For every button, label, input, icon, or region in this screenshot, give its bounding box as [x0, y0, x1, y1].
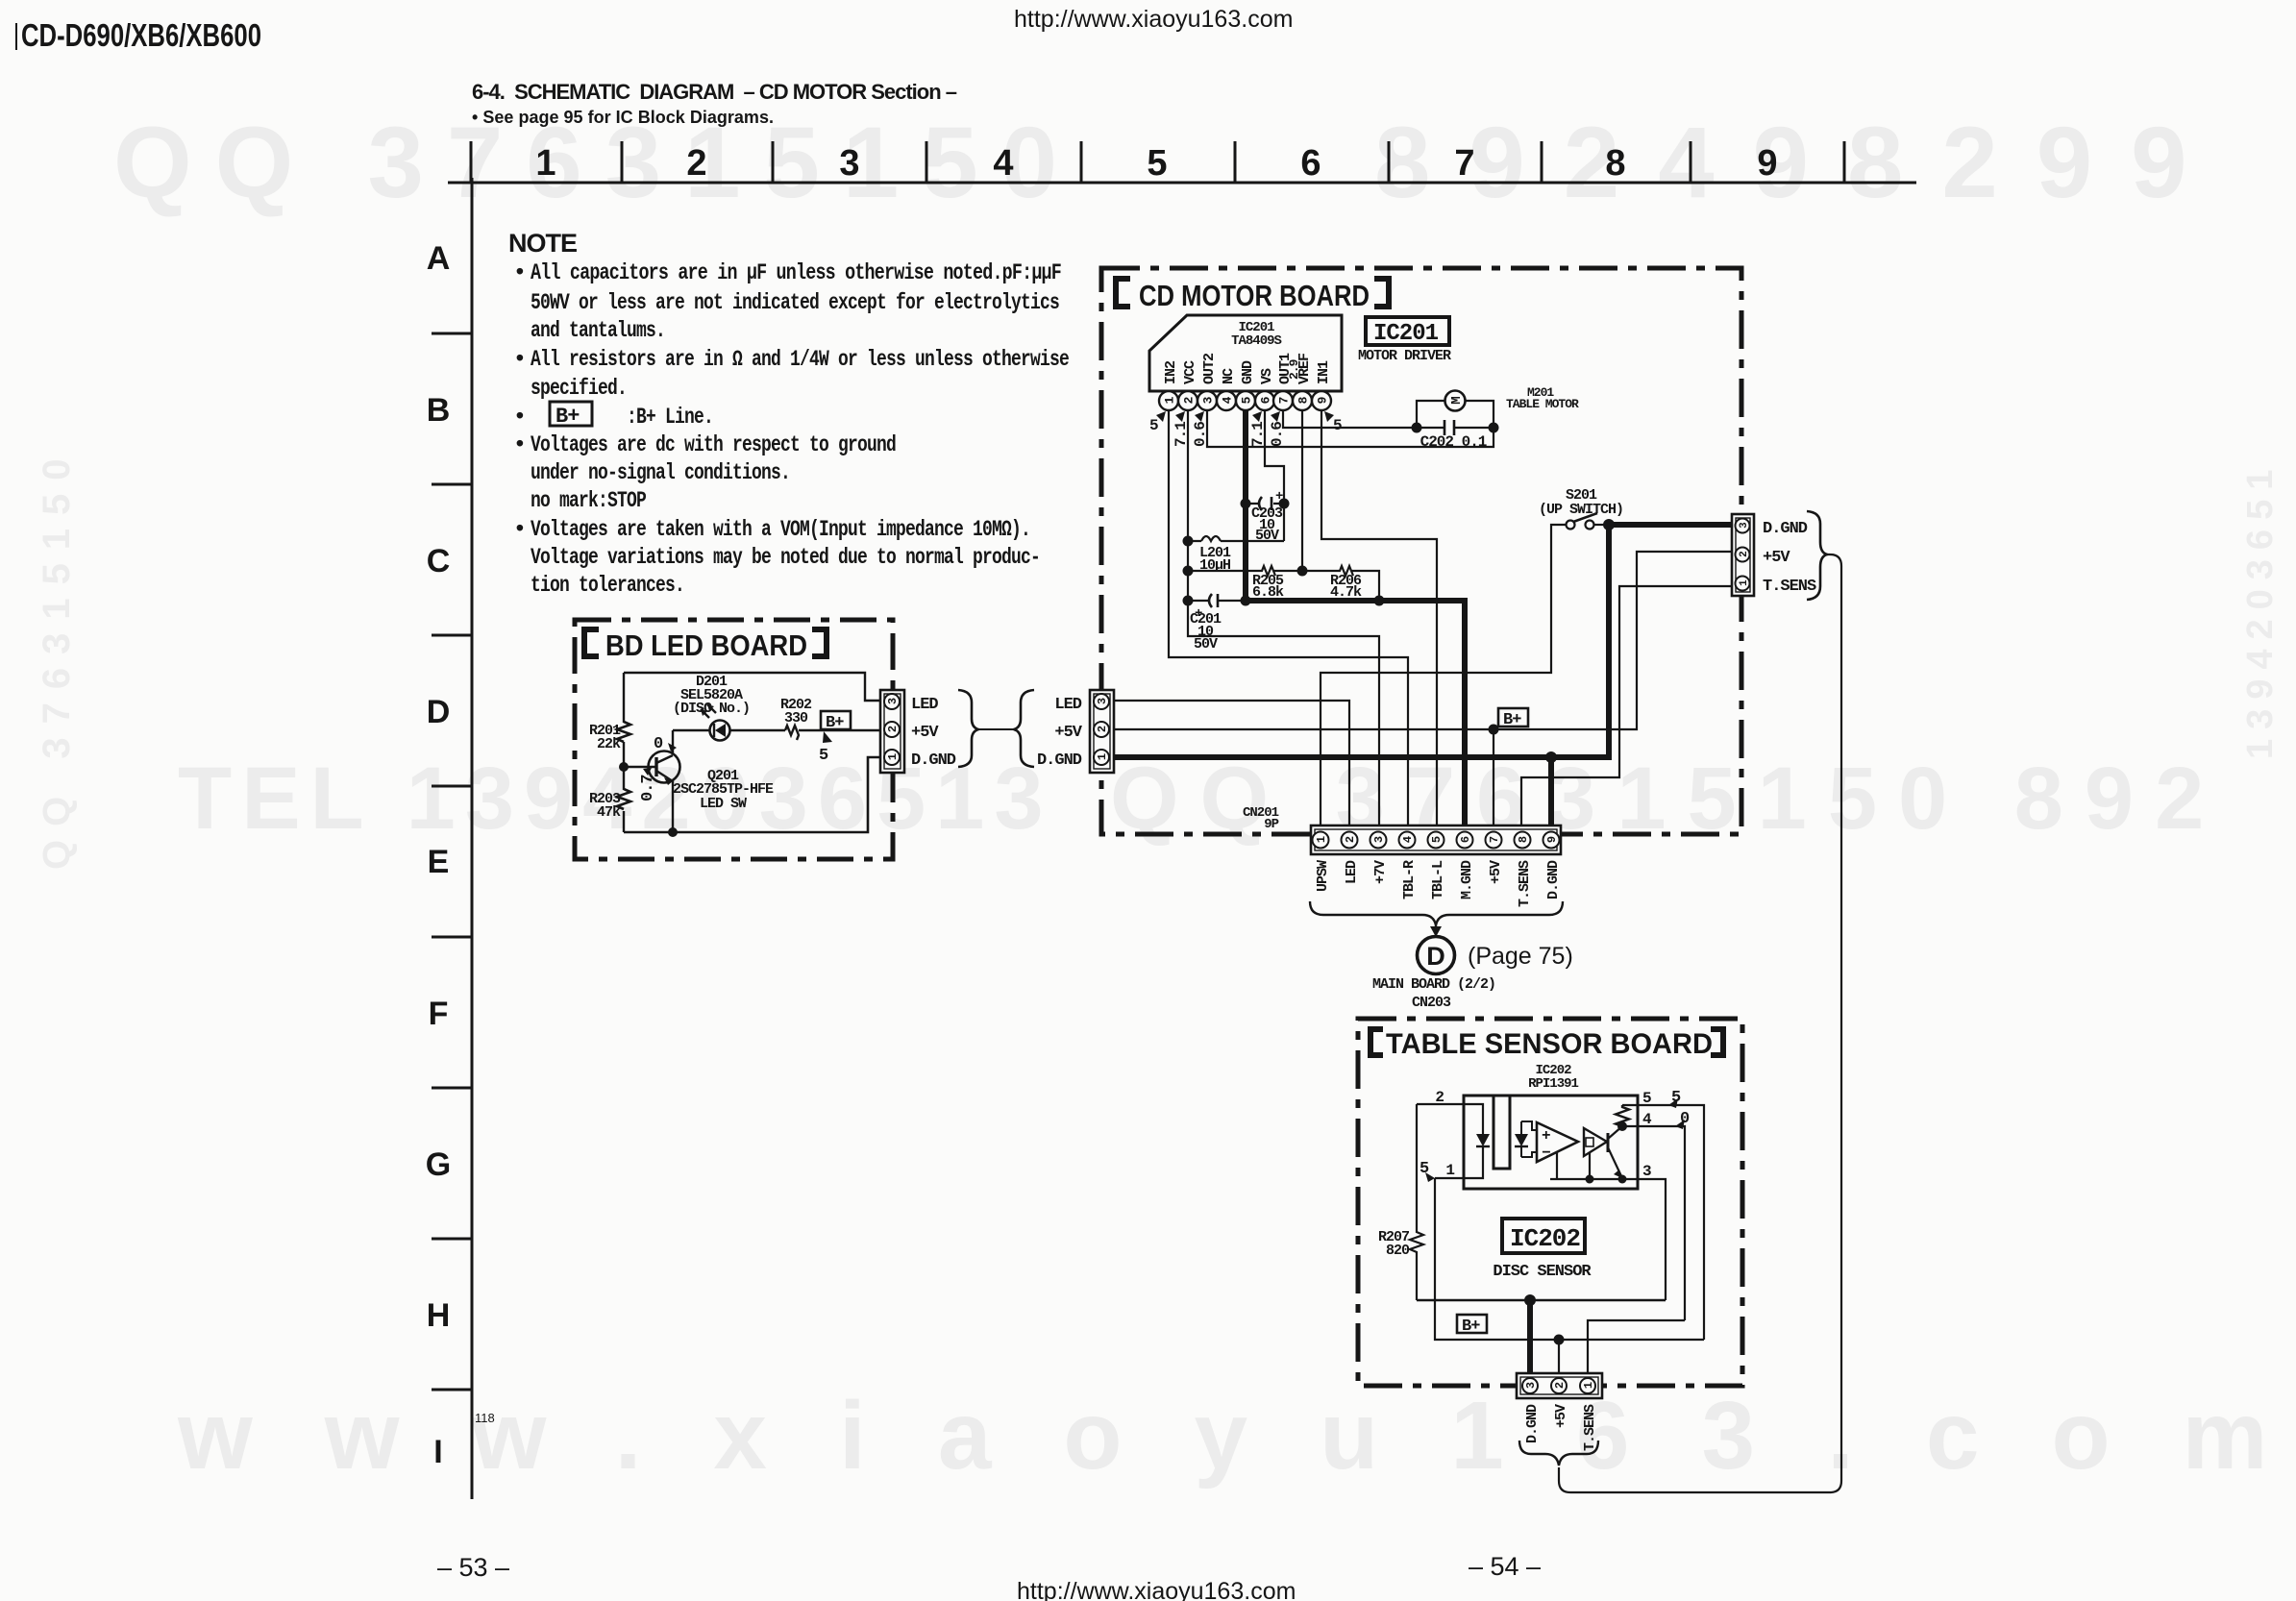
svg-text:VCC: VCC [1182, 360, 1198, 384]
inductor L201 [1188, 540, 1284, 542]
svg-text:under no-signal conditions.: under no-signal conditions. [531, 460, 790, 485]
wire base [624, 766, 656, 768]
svg-text:(DISC No.): (DISC No.) [673, 701, 750, 717]
svg-text:MAIN BOARD (2/2): MAIN BOARD (2/2) [1372, 976, 1495, 993]
brace under CN201 [1310, 901, 1563, 925]
svg-text:DISC SENSOR: DISC SENSOR [1493, 1263, 1592, 1281]
svg-text:2: 2 [1435, 1089, 1444, 1106]
svg-text:B: B [427, 392, 451, 429]
connector CN201 [1311, 825, 1561, 854]
svg-text:+5V: +5V [1763, 549, 1790, 567]
svg-text:D.GND: D.GND [1524, 1404, 1541, 1443]
wire OUT1 pin7 to motor left [1283, 410, 1417, 428]
svg-text:8: 8 [1296, 396, 1311, 404]
wire +5V row [1435, 1178, 1704, 1340]
wire bottom rail [624, 757, 881, 832]
svg-text:(UP SWITCH): (UP SWITCH) [1539, 502, 1623, 518]
svg-text:IC202: IC202 [1510, 1224, 1580, 1253]
svg-text:•: • [513, 432, 526, 457]
svg-text:http://www.xiaoyu163.com: http://www.xiaoyu163.com [1014, 6, 1293, 33]
svg-text:M.GND: M.GND [1459, 860, 1475, 899]
svg-text:I: I [433, 1434, 442, 1470]
svg-text:Voltage variations may be note: Voltage variations may be noted due to n… [531, 545, 1040, 570]
svg-text:VS: VS [1259, 368, 1275, 384]
diode IR LED inside [1464, 1104, 1483, 1178]
svg-text:4.7k: 4.7k [1330, 584, 1362, 601]
resistor pullup [1616, 1105, 1629, 1126]
svg-text:http://www.xiaoyu163.com: http://www.xiaoyu163.com [1017, 1578, 1296, 1601]
svg-text:1: 1 [1096, 753, 1109, 760]
wire LED run [1113, 701, 1349, 826]
wire UPSW CN201-1 to switch [1321, 525, 1567, 826]
cable brace right [1807, 511, 1827, 600]
svg-text:TBL-L: TBL-L [1430, 860, 1446, 899]
resistor R205 [1188, 566, 1302, 576]
LED D201 [710, 721, 730, 741]
svg-text:6.8k: 6.8k [1252, 584, 1284, 601]
svg-text:8: 8 [1605, 143, 1625, 184]
svg-text:C: C [427, 543, 451, 579]
svg-text:and tantalums.: and tantalums. [531, 318, 665, 343]
resistor R201 [617, 722, 630, 742]
svg-text:1: 1 [1315, 836, 1328, 843]
svg-text:5: 5 [1149, 417, 1158, 434]
svg-text:– 53 –: – 53 – [437, 1553, 509, 1582]
wire IN2 pin1 to CN201-4 [1169, 410, 1408, 826]
svg-text:50V: 50V [1194, 636, 1218, 653]
svg-text:50WV or less are not indicated: 50WV or less are not indicated except fo… [531, 290, 1059, 315]
svg-text:MOTOR DRIVER: MOTOR DRIVER [1358, 348, 1451, 364]
svg-text:1394203651: 1394203651 [2240, 460, 2281, 759]
op IC201 body [1149, 315, 1342, 391]
resistor R206 [1302, 566, 1379, 601]
svg-text:M: M [1449, 397, 1465, 405]
svg-text:LED SW: LED SW [700, 796, 747, 812]
svg-text:+5V: +5V [1488, 860, 1504, 884]
pin 1 wire [1435, 1177, 1464, 1179]
svg-text:T.SENS: T.SENS [1517, 860, 1533, 907]
svg-text:• See page 95 for IC Block Dia: • See page 95 for IC Block Diagrams. [472, 108, 774, 127]
svg-text:9: 9 [1757, 143, 1777, 184]
svg-text:B+: B+ [1462, 1318, 1480, 1336]
svg-text:D: D [1426, 942, 1445, 971]
svg-text:+5V: +5V [1553, 1404, 1569, 1428]
svg-text:GND: GND [1240, 360, 1256, 384]
svg-text:A: A [427, 240, 451, 277]
svg-text:5: 5 [1147, 143, 1167, 184]
svg-text:•: • [513, 347, 526, 372]
op-amp triangle [1537, 1122, 1578, 1162]
svg-text:5: 5 [1240, 396, 1254, 404]
svg-text:G: G [426, 1146, 451, 1183]
svg-text:2: 2 [1553, 1382, 1567, 1389]
capacitor C201 [1188, 600, 1246, 602]
svg-text:BD LED BOARD: BD LED BOARD [605, 628, 807, 662]
board outline TABLE SENSOR BOARD [1358, 1019, 1742, 1386]
svg-text:2: 2 [1182, 396, 1197, 404]
connector board-in (left) [1090, 690, 1114, 773]
svg-text:1: 1 [886, 753, 900, 760]
svg-text:specified.: specified. [531, 376, 627, 401]
svg-text:LED: LED [1344, 860, 1360, 884]
svg-text:D.GND: D.GND [1037, 751, 1082, 770]
wire left vertical [623, 673, 625, 832]
wire +5V run [1113, 552, 1734, 729]
svg-text:6-4. SCHEMATIC DIAGRAM – CD: 6-4. SCHEMATIC DIAGRAM – CD MOTOR Sectio… [472, 80, 957, 104]
op IC202 photo-interrupter body [1464, 1096, 1638, 1189]
connector board-out (right) [1732, 514, 1754, 596]
svg-text:9: 9 [1316, 396, 1330, 404]
svg-text:47k: 47k [597, 804, 621, 821]
svg-text:3: 3 [839, 143, 859, 184]
svg-text:9P: 9P [1264, 817, 1278, 832]
svg-text:2: 2 [886, 726, 900, 732]
svg-text:+: + [1542, 1127, 1550, 1145]
transistor Q201 [649, 751, 680, 783]
svg-text:H: H [427, 1297, 451, 1334]
connector table sensor [1517, 1373, 1602, 1398]
svg-text:9: 9 [1545, 836, 1559, 843]
wire LED row [673, 729, 881, 731]
cable brace } { [958, 690, 978, 767]
svg-text:LED: LED [1054, 696, 1081, 714]
svg-text:0: 0 [654, 735, 663, 753]
svg-text:5: 5 [1430, 836, 1444, 843]
svg-text:TA8409S: TA8409S [1231, 333, 1281, 349]
svg-text:NC: NC [1221, 368, 1237, 384]
wire T.SENS [1588, 1320, 1685, 1378]
svg-text:2.9: 2.9 [1287, 358, 1301, 380]
CN201 pin labels [1315, 860, 1562, 907]
svg-text:7: 7 [1277, 397, 1292, 404]
svg-text:E: E [428, 844, 450, 880]
svg-text:+5V: +5V [1054, 724, 1082, 742]
svg-text:LED: LED [911, 696, 938, 714]
svg-text:B+: B+ [555, 405, 580, 429]
svg-text:7: 7 [1488, 836, 1501, 843]
svg-text:5: 5 [1333, 417, 1342, 434]
svg-text:+7V: +7V [1372, 860, 1389, 884]
svg-text:•: • [513, 260, 526, 285]
svg-text:6: 6 [1259, 396, 1273, 404]
wire D.GND thick run [1113, 525, 1734, 757]
wire GND row [1417, 1299, 1666, 1301]
svg-text:2: 2 [1739, 552, 1750, 557]
svg-text:B+: B+ [826, 714, 844, 732]
svg-text:TABLE SENSOR BOARD: TABLE SENSOR BOARD [1386, 1028, 1713, 1060]
boxed designator IC202 [1502, 1219, 1585, 1253]
svg-text:3: 3 [1201, 396, 1216, 404]
svg-text:T.SENS: T.SENS [1582, 1404, 1598, 1451]
svg-text:– 54 –: – 54 – [1469, 1552, 1541, 1581]
B+ box in note [550, 402, 592, 429]
svg-text:4: 4 [1221, 396, 1235, 404]
label B+ [1457, 1315, 1487, 1333]
brace under connector [1519, 1441, 1598, 1466]
transistor output [1607, 1133, 1610, 1152]
svg-text:Voltages are dc with respect t: Voltages are dc with respect to ground [531, 432, 896, 457]
svg-text:22k: 22k [597, 736, 621, 752]
resistor R202 [785, 726, 799, 740]
photodiode inside [1521, 1121, 1537, 1157]
svg-text:QQ 376315150: QQ 376315150 [36, 445, 78, 870]
internal rail [1550, 1152, 1622, 1179]
svg-text:6: 6 [1459, 836, 1472, 843]
board title CD MOTOR BOARD [1113, 276, 1392, 309]
pin 3 wire out [1622, 1179, 1666, 1300]
node D to main board [1418, 937, 1455, 974]
svg-text:D.GND: D.GND [911, 751, 956, 770]
svg-text:Voltages are taken with a VOM(: Voltages are taken with a VOM(Input impe… [531, 517, 1030, 542]
board title BD LED BOARD [581, 627, 829, 659]
wire VREF pin8 [1301, 410, 1303, 571]
svg-text:3: 3 [1096, 698, 1109, 704]
svg-text:All capacitors are in μF unles: All capacitors are in μF unless otherwis… [531, 260, 1061, 285]
svg-text:5: 5 [819, 747, 828, 765]
svg-text:1: 1 [1582, 1382, 1595, 1389]
capacitor C203 [1246, 503, 1284, 505]
svg-text:RPI1391: RPI1391 [1528, 1076, 1578, 1092]
pin 4 wire out [1622, 1126, 1685, 1320]
wire GND pin5 thick [1246, 410, 1465, 826]
wire VS pin6 [1265, 410, 1284, 541]
svg-text:(Page 75): (Page 75) [1468, 943, 1573, 970]
svg-text:TABLE MOTOR: TABLE MOTOR [1506, 397, 1579, 411]
pin voltage labels [1149, 411, 1342, 447]
IC201 boxed designator [1366, 317, 1449, 345]
svg-text:3: 3 [886, 698, 900, 704]
svg-text:no mark:STOP: no mark:STOP [531, 488, 646, 513]
svg-text:2: 2 [1344, 836, 1357, 843]
svg-text:820: 820 [1386, 1243, 1410, 1259]
svg-text:4: 4 [993, 143, 1013, 184]
svg-text:−: − [1542, 1145, 1550, 1162]
svg-text:•: • [513, 405, 526, 430]
svg-text:4: 4 [1642, 1111, 1652, 1128]
wire top rail [624, 673, 881, 701]
svg-text:118: 118 [475, 1411, 495, 1425]
wire collector up / emitter down [672, 730, 674, 831]
board outline BD LED BOARD [575, 620, 893, 859]
svg-text:NOTE: NOTE [508, 229, 577, 258]
svg-text:7: 7 [1454, 143, 1474, 184]
svg-text:CD MOTOR BOARD: CD MOTOR BOARD [1139, 279, 1370, 312]
svg-text:B+: B+ [1503, 711, 1521, 729]
svg-text:2: 2 [686, 143, 706, 184]
svg-text:6: 6 [1300, 143, 1321, 184]
label B+ [1498, 708, 1528, 727]
connector BD LED out [880, 690, 904, 773]
svg-text:5: 5 [1642, 1090, 1651, 1107]
svg-text:CN203: CN203 [1412, 995, 1451, 1011]
svg-text:892498299: 892498299 [1374, 107, 2226, 219]
svg-text:4: 4 [1401, 836, 1415, 843]
pin 2 wire [1417, 1103, 1464, 1105]
pin 5 +5V wire out [1622, 1105, 1704, 1340]
svg-text:UPSW: UPSW [1315, 860, 1331, 892]
resistor R203 [617, 789, 630, 809]
svg-text:All resistors are in Ω and 1/4: All resistors are in Ω and 1/4W or less … [531, 347, 1069, 372]
wire VCC pin2 to CN201-3 [1188, 410, 1379, 826]
svg-text:T.SENS: T.SENS [1763, 578, 1816, 596]
switch S201 [1567, 521, 1575, 530]
svg-text:F: F [429, 996, 449, 1032]
connector pin labels [1524, 1404, 1598, 1451]
svg-text:D.GND: D.GND [1545, 860, 1562, 899]
board outline CD MOTOR BOARD [1101, 268, 1741, 834]
svg-text:1: 1 [1163, 396, 1177, 404]
node base junction [619, 762, 629, 772]
svg-text:D: D [427, 694, 451, 730]
wire D.GND thick to connector [1527, 1300, 1533, 1378]
pins 1-9 [1159, 391, 1331, 410]
inverter triangle [1584, 1128, 1607, 1156]
svg-text::B+ Line.: :B+ Line. [627, 405, 713, 430]
svg-text:C202 0.1: C202 0.1 [1420, 433, 1487, 451]
svg-text:1: 1 [1445, 1162, 1454, 1179]
pin names rotated [1163, 353, 1332, 384]
svg-text:IC201: IC201 [1373, 321, 1439, 347]
svg-text:CD-D690/XB6/XB600: CD-D690/XB6/XB600 [21, 17, 261, 53]
svg-text:3: 3 [1372, 836, 1386, 843]
board title TABLE SENSOR BOARD [1368, 1026, 1726, 1058]
svg-text:330: 330 [784, 710, 808, 727]
capacitor C202 [1417, 427, 1494, 429]
svg-text:3: 3 [1524, 1382, 1538, 1389]
svg-text:OUT2: OUT2 [1201, 353, 1218, 384]
resistor R207 [1410, 1104, 1423, 1300]
B+ label [821, 711, 851, 729]
svg-text:tion tolerances.: tion tolerances. [531, 573, 684, 598]
svg-text:0.7: 0.7 [639, 775, 657, 801]
svg-text:IN2: IN2 [1163, 360, 1179, 384]
wire OUT2 pin3 to motor right [1207, 410, 1494, 447]
svg-text:www.xiaoyu163.com: www.xiaoyu163.com [177, 1382, 2296, 1490]
motor M201 [1445, 391, 1466, 411]
svg-text:D.GND: D.GND [1763, 520, 1808, 538]
svg-text:IN1: IN1 [1316, 360, 1332, 384]
wire cable loop to table sensor board [1559, 554, 1841, 1492]
svg-text:2: 2 [1096, 726, 1109, 732]
svg-text:1: 1 [535, 143, 555, 184]
svg-text:8: 8 [1517, 836, 1530, 843]
svg-text:TBL-R: TBL-R [1401, 860, 1418, 899]
wire IN1 pin9 to CN201-5 [1321, 410, 1437, 826]
wire T.SENS run [1521, 586, 1734, 826]
svg-text:•: • [513, 517, 526, 542]
svg-text:+5V: +5V [911, 724, 939, 742]
svg-text:3: 3 [1642, 1163, 1651, 1180]
